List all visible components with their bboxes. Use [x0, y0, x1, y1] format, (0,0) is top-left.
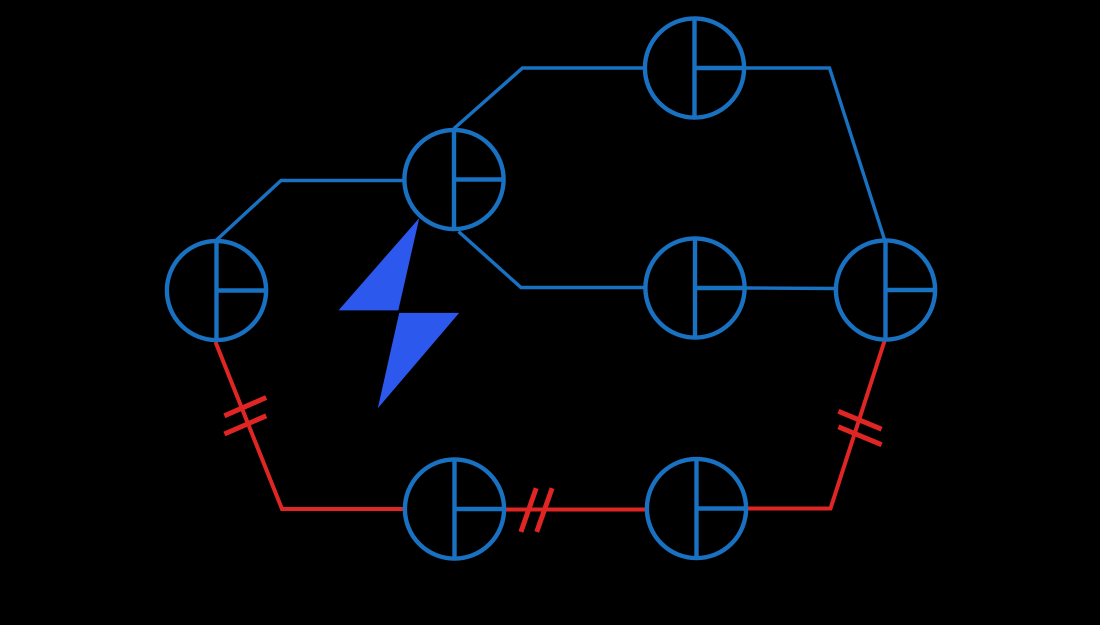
wire N3 to N6 (red, bend at 282,509): [216, 342, 404, 509]
bus node N7 (bottom middle): [647, 459, 746, 558]
fault lightning bolt lower triangle: [378, 313, 459, 408]
break mark pair on right red wire: [838, 411, 881, 444]
break mark pair on left red wire: [224, 398, 266, 435]
bus node N2 (upper middle): [404, 130, 503, 229]
wire N2 to N4 (blue, bend at 521,287.5): [459, 232, 645, 288]
wire N6 to N7 (red): [506, 508, 646, 512]
fault lightning bolt upper triangle: [339, 218, 420, 310]
break mark pair on bottom red wire: [521, 488, 552, 532]
wire N3 to N2 (blue, bend at 281,180.5): [217, 181, 404, 241]
bus node N6 (bottom left): [405, 459, 504, 558]
bus node N3 (left): [167, 241, 266, 340]
wire N7 to N5 (red, bend at 830.5,508.5): [748, 341, 885, 509]
bus node N1 (top): [645, 18, 744, 117]
wire N2 to N1 (blue, bend at 522.5,68): [454, 68, 644, 129]
bus node N4 (middle): [645, 238, 744, 337]
wire N4 to N5 (blue): [746, 286, 835, 290]
bus node N5 (right): [836, 240, 935, 339]
wire N1 to N5 (blue, bend at 829.5,68): [746, 68, 885, 240]
